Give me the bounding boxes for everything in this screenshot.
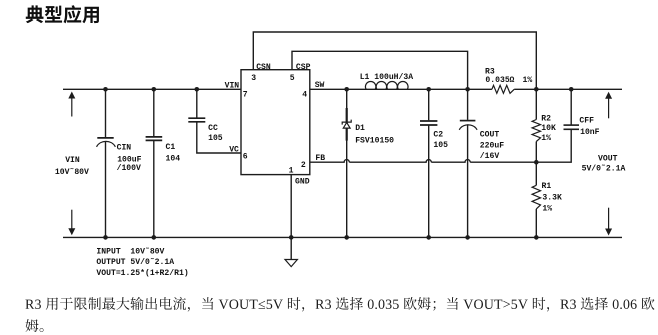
svg-text:6: 6 <box>243 152 248 161</box>
svg-text:/16V: /16V <box>480 152 500 161</box>
svg-text:CSN: CSN <box>256 63 271 72</box>
svg-text:COUT: COUT <box>480 131 500 140</box>
svg-text:L1 100uH/3A: L1 100uH/3A <box>360 73 414 82</box>
svg-text:C2: C2 <box>433 131 443 140</box>
svg-text:1%: 1% <box>541 134 551 143</box>
svg-text:7: 7 <box>243 90 248 99</box>
svg-text:C1: C1 <box>166 143 176 152</box>
svg-text:104: 104 <box>166 155 181 164</box>
svg-text:CIN: CIN <box>117 144 132 153</box>
svg-text:CC: CC <box>208 124 218 133</box>
svg-text:FSV10150: FSV10150 <box>355 136 394 145</box>
svg-text:10V˜80V: 10V˜80V <box>55 168 89 177</box>
svg-text:3: 3 <box>251 74 256 83</box>
svg-text:OUTPUT 5V/0˜2.1A: OUTPUT 5V/0˜2.1A <box>96 258 174 267</box>
svg-text:VIN: VIN <box>65 156 80 165</box>
svg-text:INPUT 10V˜80V: INPUT 10V˜80V <box>96 247 164 256</box>
svg-text:VIN: VIN <box>225 82 240 91</box>
svg-text:R2: R2 <box>541 115 551 124</box>
svg-text:VOUT: VOUT <box>598 154 618 163</box>
svg-text:VC: VC <box>229 145 239 154</box>
svg-text:3.3K: 3.3K <box>542 194 562 203</box>
svg-text:CSP: CSP <box>296 63 311 72</box>
svg-text:R1: R1 <box>542 182 552 191</box>
svg-text:10K: 10K <box>541 124 556 133</box>
svg-text:VOUT=1.25*(1+R2/R1): VOUT=1.25*(1+R2/R1) <box>96 269 188 278</box>
svg-text:5V/0˜2.1A: 5V/0˜2.1A <box>582 164 626 173</box>
svg-text:105: 105 <box>208 134 223 143</box>
svg-text:Ω: Ω <box>510 76 515 85</box>
svg-text:SW: SW <box>315 81 325 90</box>
svg-text:CFF: CFF <box>579 116 594 125</box>
svg-text:0.035: 0.035 <box>485 76 509 85</box>
svg-text:220uF: 220uF <box>480 141 504 150</box>
svg-text:GND: GND <box>295 177 310 186</box>
svg-text:5: 5 <box>290 74 295 83</box>
svg-text:4: 4 <box>302 90 307 99</box>
svg-text:105: 105 <box>433 141 448 150</box>
svg-text:/100V: /100V <box>117 164 141 173</box>
svg-text:R3: R3 <box>485 67 495 76</box>
svg-text:D1: D1 <box>355 124 365 133</box>
svg-text:1: 1 <box>289 167 294 176</box>
svg-text:1%: 1% <box>523 76 533 85</box>
svg-text:1%: 1% <box>542 205 552 214</box>
svg-text:10nF: 10nF <box>580 128 600 137</box>
svg-text:FB: FB <box>315 154 325 163</box>
svg-text:2: 2 <box>301 161 306 170</box>
